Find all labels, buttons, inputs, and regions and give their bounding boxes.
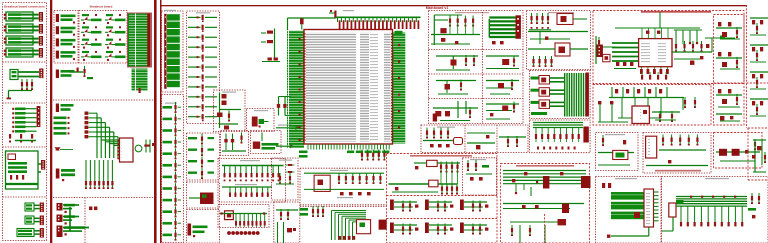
series resistor R34 — [188, 55, 217, 62]
bottom net labels — [347, 151, 389, 154]
pull-up resistor R28 — [163, 195, 182, 206]
strip2 title — [196, 12, 210, 13]
resistor column under MCU — [361, 150, 386, 161]
gpio connector column border — [162, 11, 184, 92]
decoupling caps C10 — [261, 29, 275, 59]
connector P4 — [56, 51, 76, 61]
reference cell — [486, 102, 519, 120]
right column cell 4 — [716, 114, 742, 121]
usb right riser wires — [674, 30, 702, 44]
connector bar P5 — [147, 14, 150, 67]
ground symbol — [7, 98, 12, 100]
led driver box — [662, 177, 768, 243]
connector P3 — [56, 38, 76, 48]
wire d9 — [60, 149, 73, 151]
wire arrow net 1 — [276, 125, 301, 131]
bridge bypass caps — [640, 67, 669, 74]
U7 output stubs — [654, 192, 659, 221]
pull-up resistor R20 — [163, 102, 182, 113]
pull resistor column border — [162, 95, 184, 243]
connector J2 group — [4, 24, 43, 34]
column title — [165, 103, 177, 104]
power divider v — [482, 12, 484, 124]
MCU U3 body — [304, 30, 393, 145]
wire fan — [96, 113, 118, 158]
connector J11 circuit — [17, 228, 44, 238]
filter R41 — [188, 145, 214, 156]
connector J6 header — [12, 108, 25, 133]
mainboard left border — [160, 0, 162, 243]
wire arrow net 2 — [276, 144, 295, 148]
diode grid sub-box — [79, 11, 127, 64]
right column divider — [714, 82, 745, 84]
bottom wire — [15, 140, 36, 142]
relay box — [596, 133, 639, 171]
power divider h3 — [429, 98, 524, 100]
MCU top pin comb — [338, 18, 420, 29]
serial port box — [593, 85, 711, 126]
junction dots on left labels — [299, 38, 301, 141]
power section border — [429, 11, 524, 124]
sense divider cell — [486, 56, 519, 69]
sensor cell lower — [510, 219, 566, 243]
connector J3 group — [4, 36, 43, 46]
svg-text:Mainboard v1: Mainboard v1 — [426, 6, 449, 10]
page2 divider — [53, 99, 155, 101]
edge divider — [747, 82, 768, 84]
LED matrix box — [530, 71, 591, 119]
bus junction dots — [690, 196, 736, 198]
connector P10 — [57, 215, 80, 225]
filter group border — [187, 133, 220, 180]
buzzer box — [247, 109, 275, 132]
mainboard top border — [161, 5, 747, 6]
edge cell circuit 3 — [750, 72, 768, 89]
edge sheet border — [746, 5, 748, 128]
SPI flash box — [300, 206, 387, 240]
diode D1 cell — [81, 14, 102, 24]
right column cell 3 — [716, 89, 742, 107]
connector P8 — [56, 169, 75, 182]
series resistor R31 — [188, 25, 217, 32]
power divider h1 — [429, 49, 524, 51]
edge io box — [748, 128, 768, 180]
page2 divider 2 vertical — [84, 198, 86, 243]
IC U2 — [117, 138, 133, 162]
mosfet switch cell — [436, 55, 478, 70]
usb top feed — [659, 12, 661, 28]
edge cell circuit 1 — [750, 18, 768, 35]
capacitor C11 — [300, 19, 304, 30]
wire gnd run — [9, 90, 33, 92]
analog input cell 2-2 — [425, 223, 453, 235]
connector K2 box — [187, 210, 220, 243]
MCU bottom pin stubs — [308, 144, 389, 150]
edge cell circuit 2 — [750, 45, 768, 62]
pull-up resistor R22 — [163, 125, 182, 136]
MCU right pin labels — [393, 33, 406, 144]
capacitor C2 — [144, 140, 155, 153]
usb below comps — [641, 72, 667, 80]
I2C expander box — [300, 168, 387, 205]
pull-up resistor R29 — [163, 206, 182, 217]
wire bus vertical to resistors — [86, 160, 112, 178]
pull-up resistor R21 — [163, 114, 182, 125]
pull-up resistor R27 — [163, 183, 182, 194]
crystal circuit box — [221, 131, 249, 156]
capacitor C1 — [31, 79, 33, 90]
usb top wire — [615, 27, 700, 29]
analog input cell 1-2 — [390, 223, 418, 235]
inner divider a — [387, 195, 498, 197]
MCU left pin ticks — [303, 33, 306, 140]
driver transistor cell 1 — [716, 22, 742, 39]
filter R40 — [188, 134, 214, 145]
USB bridge U4 — [639, 39, 672, 67]
MCU right pin ticks — [391, 33, 394, 140]
connector P7 — [56, 104, 74, 113]
sheet border - breakout board connectors page — [3, 3, 47, 241]
relay K1 box — [187, 182, 220, 208]
jumper JP2 — [94, 207, 97, 211]
wire U7 bottom — [607, 227, 649, 238]
output bus comb — [676, 197, 747, 227]
resistor R1 — [21, 79, 23, 90]
connector P2 — [56, 26, 76, 36]
analog supply box — [387, 154, 498, 243]
usb interface box — [593, 11, 744, 84]
gpio net labels — [167, 14, 180, 87]
resistor R2 — [26, 79, 28, 90]
bus end resistors — [748, 193, 760, 218]
series resistor R36 — [188, 74, 217, 81]
shift register U7 — [644, 189, 654, 227]
series resistor R38 — [188, 94, 217, 101]
reset circuit box — [214, 90, 246, 132]
title sensor bus — [516, 165, 574, 167]
io sub-box — [54, 11, 78, 64]
wire bundle to U2 — [101, 140, 122, 149]
section divider 4 — [3, 196, 47, 198]
transistor Q7 — [135, 145, 142, 152]
sensor bus box — [501, 164, 590, 243]
MCU left pin labels — [287, 31, 304, 149]
crystal Y1 — [277, 97, 291, 116]
usb left comps — [614, 62, 636, 69]
opto interface box — [527, 11, 591, 70]
resistor array R4-R10 — [85, 178, 114, 189]
connector J8 — [41, 160, 45, 170]
connector J7 — [37, 106, 41, 127]
header wire bus — [26, 109, 37, 132]
net label stack lower — [132, 69, 148, 91]
MCU top pin bus — [336, 16, 421, 18]
svg-text:Breakout board: Breakout board — [90, 4, 113, 8]
analog input cell 1-1 — [390, 200, 418, 212]
series resistor R30 — [188, 15, 217, 22]
junction resistors row — [9, 134, 33, 143]
inner divider b — [387, 218, 498, 220]
aux supply cell — [433, 101, 478, 122]
pull-up resistor R26 — [163, 172, 182, 183]
sensor connector row — [503, 204, 584, 214]
shift register input labels — [611, 192, 644, 219]
wire to J8 a — [38, 163, 41, 165]
row b right cell — [486, 79, 519, 94]
driver transistor cell 2 — [716, 52, 742, 69]
module U1 outline — [6, 151, 39, 189]
filter R42 — [188, 157, 214, 168]
connector P1 — [56, 14, 76, 24]
connector J1 group — [4, 12, 43, 22]
power title — [455, 12, 489, 13]
connector J10 circuit — [25, 216, 44, 226]
ldo U6 — [392, 180, 458, 194]
vertical join wire — [69, 207, 71, 231]
LED comb box — [530, 120, 591, 153]
junction dots on right labels — [398, 44, 400, 129]
resistor R3 — [139, 88, 141, 93]
connector X3 bar — [164, 14, 166, 89]
diode D7 cell — [105, 39, 126, 49]
diode D5 cell — [105, 14, 126, 24]
resistor R50 at bus end — [329, 10, 337, 18]
page divider line 1 — [50, 0, 52, 243]
pull-up resistor R23 — [163, 137, 182, 148]
series resistor R40 — [188, 114, 217, 121]
shift register box — [596, 177, 662, 243]
filter bank inner box — [463, 158, 497, 195]
switch cell row b left — [436, 80, 476, 95]
svg-text:Breakout board connectors: Breakout board connectors — [4, 4, 45, 8]
edge cell circuit 4 — [750, 99, 768, 116]
diode D6 cell — [105, 26, 126, 36]
pull-up resistor R25 — [163, 160, 182, 171]
page2 divider 2 — [53, 197, 155, 199]
connector J4 group — [4, 48, 43, 58]
filter R43 — [188, 168, 214, 179]
wire top-left to bus — [288, 18, 336, 30]
usb vcc risers — [642, 28, 668, 39]
divider in sensor box — [544, 214, 546, 243]
page divider line 2 — [154, 0, 157, 243]
pull-up resistor R31 — [163, 230, 182, 241]
wire to J8 b — [38, 171, 41, 173]
diode D3 cell — [81, 39, 102, 49]
diode D2 cell — [81, 26, 102, 36]
wire down — [8, 91, 10, 99]
series resistor column border — [187, 11, 220, 124]
ISP header box — [218, 205, 269, 228]
power connector X1 — [489, 15, 521, 44]
series resistor R32 — [188, 35, 217, 42]
title motor driver — [655, 170, 701, 172]
series resistor R39 — [188, 104, 217, 111]
ldo regulator U5 — [414, 160, 460, 184]
net label stack — [128, 13, 152, 67]
ESD protection — [596, 36, 615, 64]
pull-up resistor R24 — [163, 148, 182, 159]
section divider 1 — [3, 61, 47, 63]
title analog supply — [410, 155, 472, 157]
label text above bus — [343, 10, 354, 11]
analog input cell 3-2 — [460, 223, 488, 235]
power divider h2 — [429, 73, 524, 75]
USB connector X2 — [597, 45, 603, 58]
sensor bus wires upper — [503, 171, 591, 197]
aux io box — [714, 133, 763, 169]
series resistor R37 — [188, 84, 217, 91]
motor driver box — [643, 133, 711, 174]
net labels column — [54, 117, 70, 135]
sensor power box — [421, 125, 528, 153]
diode D4 cell — [81, 51, 102, 61]
section divider 3 — [3, 146, 47, 148]
analog input cell 3-1 — [460, 200, 488, 212]
LED bead row — [227, 231, 260, 235]
voltage ref box — [272, 158, 299, 200]
diode D9 — [56, 148, 60, 150]
series resistor R33 — [188, 45, 217, 52]
section divider 2 — [3, 102, 47, 104]
net labels left-bottom — [299, 151, 308, 158]
crystal circuit right of U4 — [672, 36, 735, 65]
supervisor box — [251, 131, 282, 154]
connector P6 circuit — [56, 66, 93, 79]
supply bus — [389, 183, 458, 185]
connector J9 circuit — [25, 203, 44, 213]
usb data bus — [612, 43, 639, 61]
series resistor R35 — [188, 64, 217, 71]
regulator circuit — [431, 15, 480, 45]
capacitors near xtal — [262, 58, 280, 62]
connector P11 — [57, 226, 90, 238]
title usb interface — [641, 11, 711, 13]
connector P9 — [57, 203, 80, 213]
right column border — [714, 15, 745, 126]
gpio column title — [164, 10, 176, 11]
adc filter box — [274, 202, 300, 243]
connector J5 circuit — [10, 69, 43, 80]
net label top right of mcu — [395, 31, 403, 35]
jumper JP1 — [89, 207, 92, 211]
transistor array Q1-Q6 — [85, 112, 97, 139]
stack left wire — [128, 14, 130, 67]
diode D8 cell — [105, 51, 126, 61]
analog input filter box — [218, 159, 286, 203]
analog input cell 2-1 — [425, 200, 453, 212]
pull-up resistor R30 — [163, 218, 182, 229]
